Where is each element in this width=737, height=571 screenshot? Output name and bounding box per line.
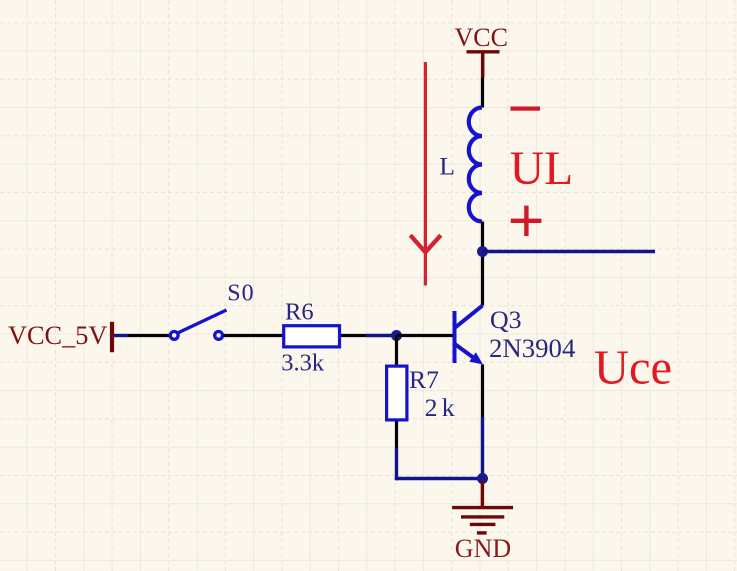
svg-text:Uce: Uce — [594, 341, 672, 394]
transistor Q3 designator label — [490, 305, 522, 334]
polarity minus sign — [511, 107, 541, 111]
wire Q3 emitter down — [481, 365, 484, 479]
inductor L designator label — [439, 151, 455, 180]
wire bottom horizontal R7 to emitter node — [395, 477, 483, 480]
wire switch S0 to resistor R6 — [224, 334, 284, 337]
resistor R6 — [284, 326, 340, 347]
svg-text:2N3904: 2N3904 — [489, 333, 575, 363]
svg-text:R7: R7 — [409, 365, 439, 394]
resistor R7 value label 2k — [425, 393, 459, 422]
svg-text:S0: S0 — [227, 281, 254, 307]
switch S0 — [170, 310, 226, 339]
node junction at ground — [477, 473, 488, 484]
ground net label GND — [455, 534, 511, 563]
transistor Q3 value label 2N3904 — [489, 333, 575, 363]
wire VCC to inductor L — [481, 78, 484, 108]
ground symbol GND — [452, 481, 513, 533]
voltage label Uce — [594, 341, 672, 394]
svg-text:UL: UL — [510, 143, 573, 195]
wire junction to resistor R7 — [395, 336, 398, 365]
wire inductor L to Q3 collector — [481, 222, 484, 306]
svg-text:3.3k: 3.3k — [281, 350, 325, 377]
node junction at inductor output — [477, 246, 488, 257]
power symbol VCC — [455, 23, 508, 78]
svg-text:L: L — [439, 151, 455, 180]
svg-text:VCC: VCC — [455, 23, 508, 52]
wire output net to the right — [483, 250, 656, 253]
resistor R7 designator label — [409, 365, 439, 394]
node junction at Q3 base — [391, 330, 402, 341]
port VCC_5V — [8, 321, 112, 352]
svg-text:GND: GND — [455, 534, 511, 563]
inductor L — [469, 108, 482, 222]
wire port to switch S0 — [128, 334, 170, 337]
wire junction to Q3 base — [397, 334, 453, 337]
wire port stub — [114, 334, 128, 337]
resistor R7 — [387, 366, 407, 420]
resistor R6 value label 3.3k — [281, 350, 325, 377]
svg-text:VCC_5V: VCC_5V — [8, 321, 107, 350]
transistor Q3 — [455, 306, 484, 365]
svg-text:R6: R6 — [285, 299, 314, 326]
switch S0 designator label — [227, 281, 254, 307]
svg-text:2k: 2k — [425, 393, 459, 422]
current direction arrow — [410, 62, 441, 286]
wire R6 to base junction — [341, 334, 397, 337]
polarity plus sign — [511, 206, 542, 237]
svg-text:Q3: Q3 — [490, 305, 522, 334]
resistor R6 designator label — [285, 299, 314, 326]
voltage label UL — [510, 143, 573, 195]
wire R7 down — [395, 422, 398, 481]
